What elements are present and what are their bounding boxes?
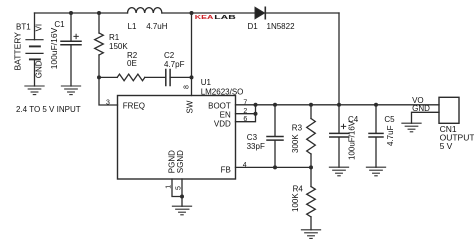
wire FREQ feed [99, 77, 118, 105]
capacitor C3 [247, 105, 283, 168]
svg-text:L1: L1 [128, 22, 137, 31]
node SW C2 junction [190, 75, 194, 79]
ground output [402, 123, 421, 132]
svg-text:1: 1 [165, 185, 172, 189]
wire output vertical drop [338, 13, 340, 105]
svg-text:GND: GND [412, 104, 430, 113]
svg-text:SW: SW [186, 100, 195, 113]
capacitor C4 [330, 105, 359, 167]
wire R2 branch left [99, 76, 117, 78]
ground battery [25, 86, 44, 95]
svg-text:FB: FB [221, 166, 231, 175]
svg-text:0E: 0E [127, 59, 137, 68]
node R3 bottom [309, 165, 313, 169]
svg-text:33pF: 33pF [247, 142, 265, 151]
resistor R1 [95, 13, 129, 77]
resistor R3 [291, 105, 315, 168]
svg-text:8: 8 [184, 85, 191, 89]
wire GND to connector [412, 112, 440, 123]
svg-text:BATTERY: BATTERY [12, 32, 22, 71]
wire SGND pin5 [181, 179, 183, 197]
svg-text:SGND: SGND [176, 150, 185, 173]
svg-text:C3: C3 [247, 133, 258, 142]
node EN tie [254, 112, 258, 116]
wire C2 to SW node [170, 76, 191, 78]
svg-text:300K: 300K [291, 134, 300, 153]
node SW top [190, 11, 194, 15]
ground C5 [366, 167, 385, 176]
wire R2 to C2 [145, 76, 166, 78]
wire PGND pin1 [172, 179, 182, 197]
node R3 top [309, 103, 313, 107]
svg-text:R4: R4 [293, 184, 304, 193]
node R1 top [97, 11, 101, 15]
svg-text:2.4 TO 5 V INPUT: 2.4 TO 5 V INPUT [16, 105, 81, 114]
node C3 bottom [273, 165, 277, 169]
svg-text:GND: GND [34, 60, 43, 78]
svg-text:KEA: KEA [195, 15, 214, 21]
battery BT1 [12, 13, 43, 86]
wire inductor to diode [162, 12, 255, 14]
svg-text:100K: 100K [291, 193, 300, 212]
wire top rail battery to inductor [35, 12, 128, 14]
svg-text:R3: R3 [292, 124, 303, 133]
wire output rail [236, 104, 440, 106]
node gnd junction [180, 195, 184, 199]
svg-text:100uF/16V: 100uF/16V [348, 120, 357, 160]
svg-text:U1: U1 [201, 78, 212, 87]
node C3 top [273, 103, 277, 107]
wire FB rail [236, 166, 312, 168]
wire diode to output drop [265, 12, 339, 14]
inductor L1 [128, 8, 168, 32]
svg-text:C5: C5 [384, 115, 395, 124]
svg-text:EN: EN [220, 110, 231, 119]
svg-text:BT1: BT1 [16, 22, 31, 31]
ground R4 [301, 230, 320, 239]
svg-text:5 V: 5 V [440, 141, 453, 151]
svg-text:LAB: LAB [214, 15, 236, 21]
capacitor C5 [369, 105, 395, 167]
svg-text:VDD: VDD [214, 119, 231, 128]
svg-text:150K: 150K [109, 42, 128, 51]
wire EN pin [236, 113, 256, 115]
svg-text:R1: R1 [109, 33, 120, 42]
wire SW vertical [191, 13, 193, 96]
wire VDD pin [236, 105, 256, 122]
svg-text:4.7pF: 4.7pF [164, 60, 185, 69]
svg-text:3: 3 [106, 99, 110, 106]
svg-text:LM2623/SO: LM2623/SO [201, 87, 244, 96]
capacitor C2 [164, 51, 185, 85]
svg-text:4.7uF: 4.7uF [386, 125, 395, 146]
capacitor C1 [49, 13, 81, 86]
svg-text:1N5822: 1N5822 [267, 22, 296, 31]
svg-text:100uF/16V: 100uF/16V [49, 27, 59, 69]
svg-text:D1: D1 [248, 22, 259, 31]
svg-text:FREQ: FREQ [123, 101, 145, 110]
node R1 bottom / R2 branch [97, 75, 101, 79]
node C5 top [374, 103, 378, 107]
diode D1 [248, 7, 296, 31]
connector CN1 [439, 97, 474, 151]
ground C1 [61, 86, 80, 95]
wire gnd stem [181, 197, 183, 207]
resistor R2 [117, 51, 145, 80]
IC U1 LM2623/SO [118, 78, 244, 179]
ground U1 [172, 206, 191, 215]
ground C4 [329, 167, 348, 176]
svg-text:BOOT: BOOT [208, 101, 231, 110]
svg-text:VI: VI [34, 24, 43, 32]
svg-text:4.7uH: 4.7uH [146, 22, 168, 31]
resistor R4 [291, 167, 316, 229]
node C4 top [337, 103, 341, 107]
node BOOT tie [254, 103, 258, 107]
logo KEALAB [195, 15, 236, 21]
node C1 top [69, 11, 73, 15]
